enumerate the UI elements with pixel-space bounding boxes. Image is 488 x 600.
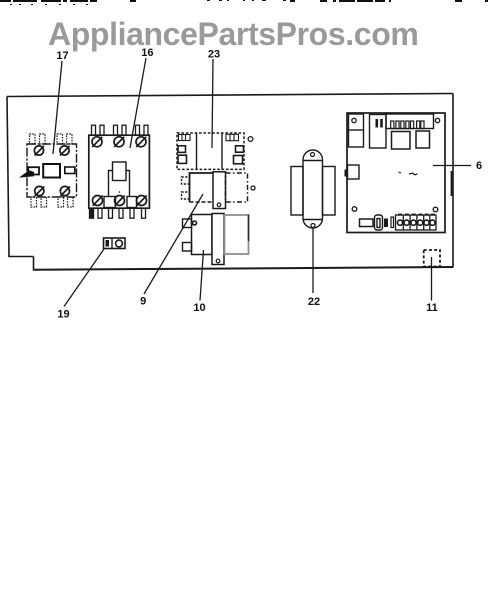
board 6 top-left box	[349, 114, 364, 147]
bracket 19 body	[104, 238, 126, 249]
svg-text:16: 16	[141, 47, 153, 59]
relay 9 left tabs	[182, 177, 190, 199]
relay 9 strip hole	[217, 203, 221, 207]
relay 9 center strip	[213, 172, 226, 209]
capacitor 22 right bracket	[323, 167, 336, 216]
mounting hole right of 9	[251, 186, 255, 190]
panel notch step vertical	[33, 257, 35, 271]
board 6 header pins	[391, 121, 424, 129]
capacitor 22 body	[303, 150, 323, 228]
relay 10 right box dark edge	[248, 215, 250, 242]
transformer 23 left terminals	[178, 146, 187, 164]
contactor 17 left lug	[28, 167, 39, 174]
contactor 17 bottom terminals	[31, 197, 73, 207]
transformer 23 outer case	[177, 133, 244, 169]
relay 10 hole	[193, 221, 197, 225]
relay 9 left box	[190, 173, 214, 202]
relay 10 left tabs	[183, 219, 192, 251]
relay 10 right box	[225, 215, 249, 254]
leader line 10	[200, 250, 204, 301]
svg-text:22: 22	[308, 296, 320, 308]
board 6 left connector	[348, 165, 360, 179]
contactor 17 body	[27, 144, 77, 197]
relay 9 right box	[226, 173, 248, 202]
pointer arrow at 17	[19, 170, 34, 177]
svg-text:17: 17	[56, 50, 68, 62]
transformer 23 right divider	[221, 133, 223, 169]
capacitor 22 top hole	[311, 153, 315, 157]
clip 11 dashed box	[424, 250, 440, 267]
mounting hole right of 23	[248, 137, 253, 142]
leader line 6	[433, 165, 471, 167]
board 6 left connector nub	[345, 170, 349, 177]
circuit board 6 outline	[347, 113, 445, 233]
relay 16 coil block	[109, 162, 130, 196]
board 6 relay box	[370, 115, 387, 149]
board 6 terminal block	[396, 215, 437, 230]
relay 16 top screws	[92, 137, 146, 147]
leader line 9	[144, 194, 203, 294]
transformer 23 right terminals	[234, 146, 244, 164]
transformer 23 left divider	[196, 133, 198, 169]
board 6 capacitor	[375, 215, 383, 230]
svg-text:19: 19	[57, 309, 69, 321]
board 6 silk marks	[399, 172, 418, 175]
relay 16 top prongs	[92, 125, 149, 135]
relay 10 center strip	[212, 214, 224, 265]
board 6 top-left hole	[352, 118, 356, 122]
relay 16 bottom screws	[93, 196, 147, 206]
contactor 17 top terminals	[30, 134, 73, 144]
contactor 17 coil block	[43, 164, 60, 178]
board 6 relay square 1	[392, 132, 411, 150]
board 6 connector header	[386, 114, 434, 129]
cropped header text fragments	[0, 0, 488, 5]
board 6 terminal block tabs	[398, 214, 435, 216]
board 6 terminal screws	[397, 220, 435, 225]
board 6 bottom-left hole	[352, 207, 357, 212]
relay 16 bottom prongs	[90, 208, 146, 218]
board 6 relay box contacts	[376, 119, 383, 128]
board 6 relay square 2	[416, 131, 430, 148]
board 6 edge shadow	[451, 171, 453, 196]
transformer 23 right label plate	[226, 134, 239, 140]
board 6 bottom-right hole	[433, 207, 438, 212]
board 6 diode	[384, 219, 388, 228]
leader line 16	[130, 58, 146, 148]
svg-text:10: 10	[193, 302, 205, 314]
svg-text:11: 11	[426, 302, 438, 314]
leader line 11	[431, 257, 433, 301]
panel notch step horizontal	[9, 256, 34, 258]
bracket 19 hole	[116, 240, 123, 247]
capacitor 22 bottom hole	[311, 224, 315, 228]
panel outline bottom edge	[34, 267, 454, 270]
relay 10 left box	[192, 215, 213, 255]
capacitor 22 left bracket	[291, 167, 303, 216]
panel outline top edge	[7, 94, 453, 97]
board 6 top-right hole	[435, 118, 439, 122]
svg-text:6: 6	[476, 160, 482, 172]
watermark AppliancePartsPros.com	[48, 16, 418, 53]
contactor 17 right lug	[65, 167, 75, 174]
relay 10 strip hole	[216, 259, 220, 263]
contactor 17 screws	[34, 146, 70, 196]
svg-text:23: 23	[208, 49, 220, 61]
svg-text:9: 9	[140, 296, 146, 308]
leader line 19	[64, 249, 104, 307]
relay 16 body	[89, 135, 150, 208]
bracket 19 divider	[111, 238, 113, 249]
relay 16 bottom lugs	[104, 197, 137, 208]
board 6 jumper	[391, 217, 394, 228]
panel outline right edge	[452, 94, 454, 268]
bracket 19 clip	[106, 240, 110, 247]
relay 16 coil dot	[119, 191, 121, 193]
panel outline left edge	[7, 97, 9, 258]
leader line 23	[212, 59, 213, 148]
board 6 resistor	[360, 219, 374, 227]
leader line 17	[53, 61, 62, 154]
transformer 23 left label plate	[179, 135, 191, 141]
leader line 22	[312, 228, 314, 293]
